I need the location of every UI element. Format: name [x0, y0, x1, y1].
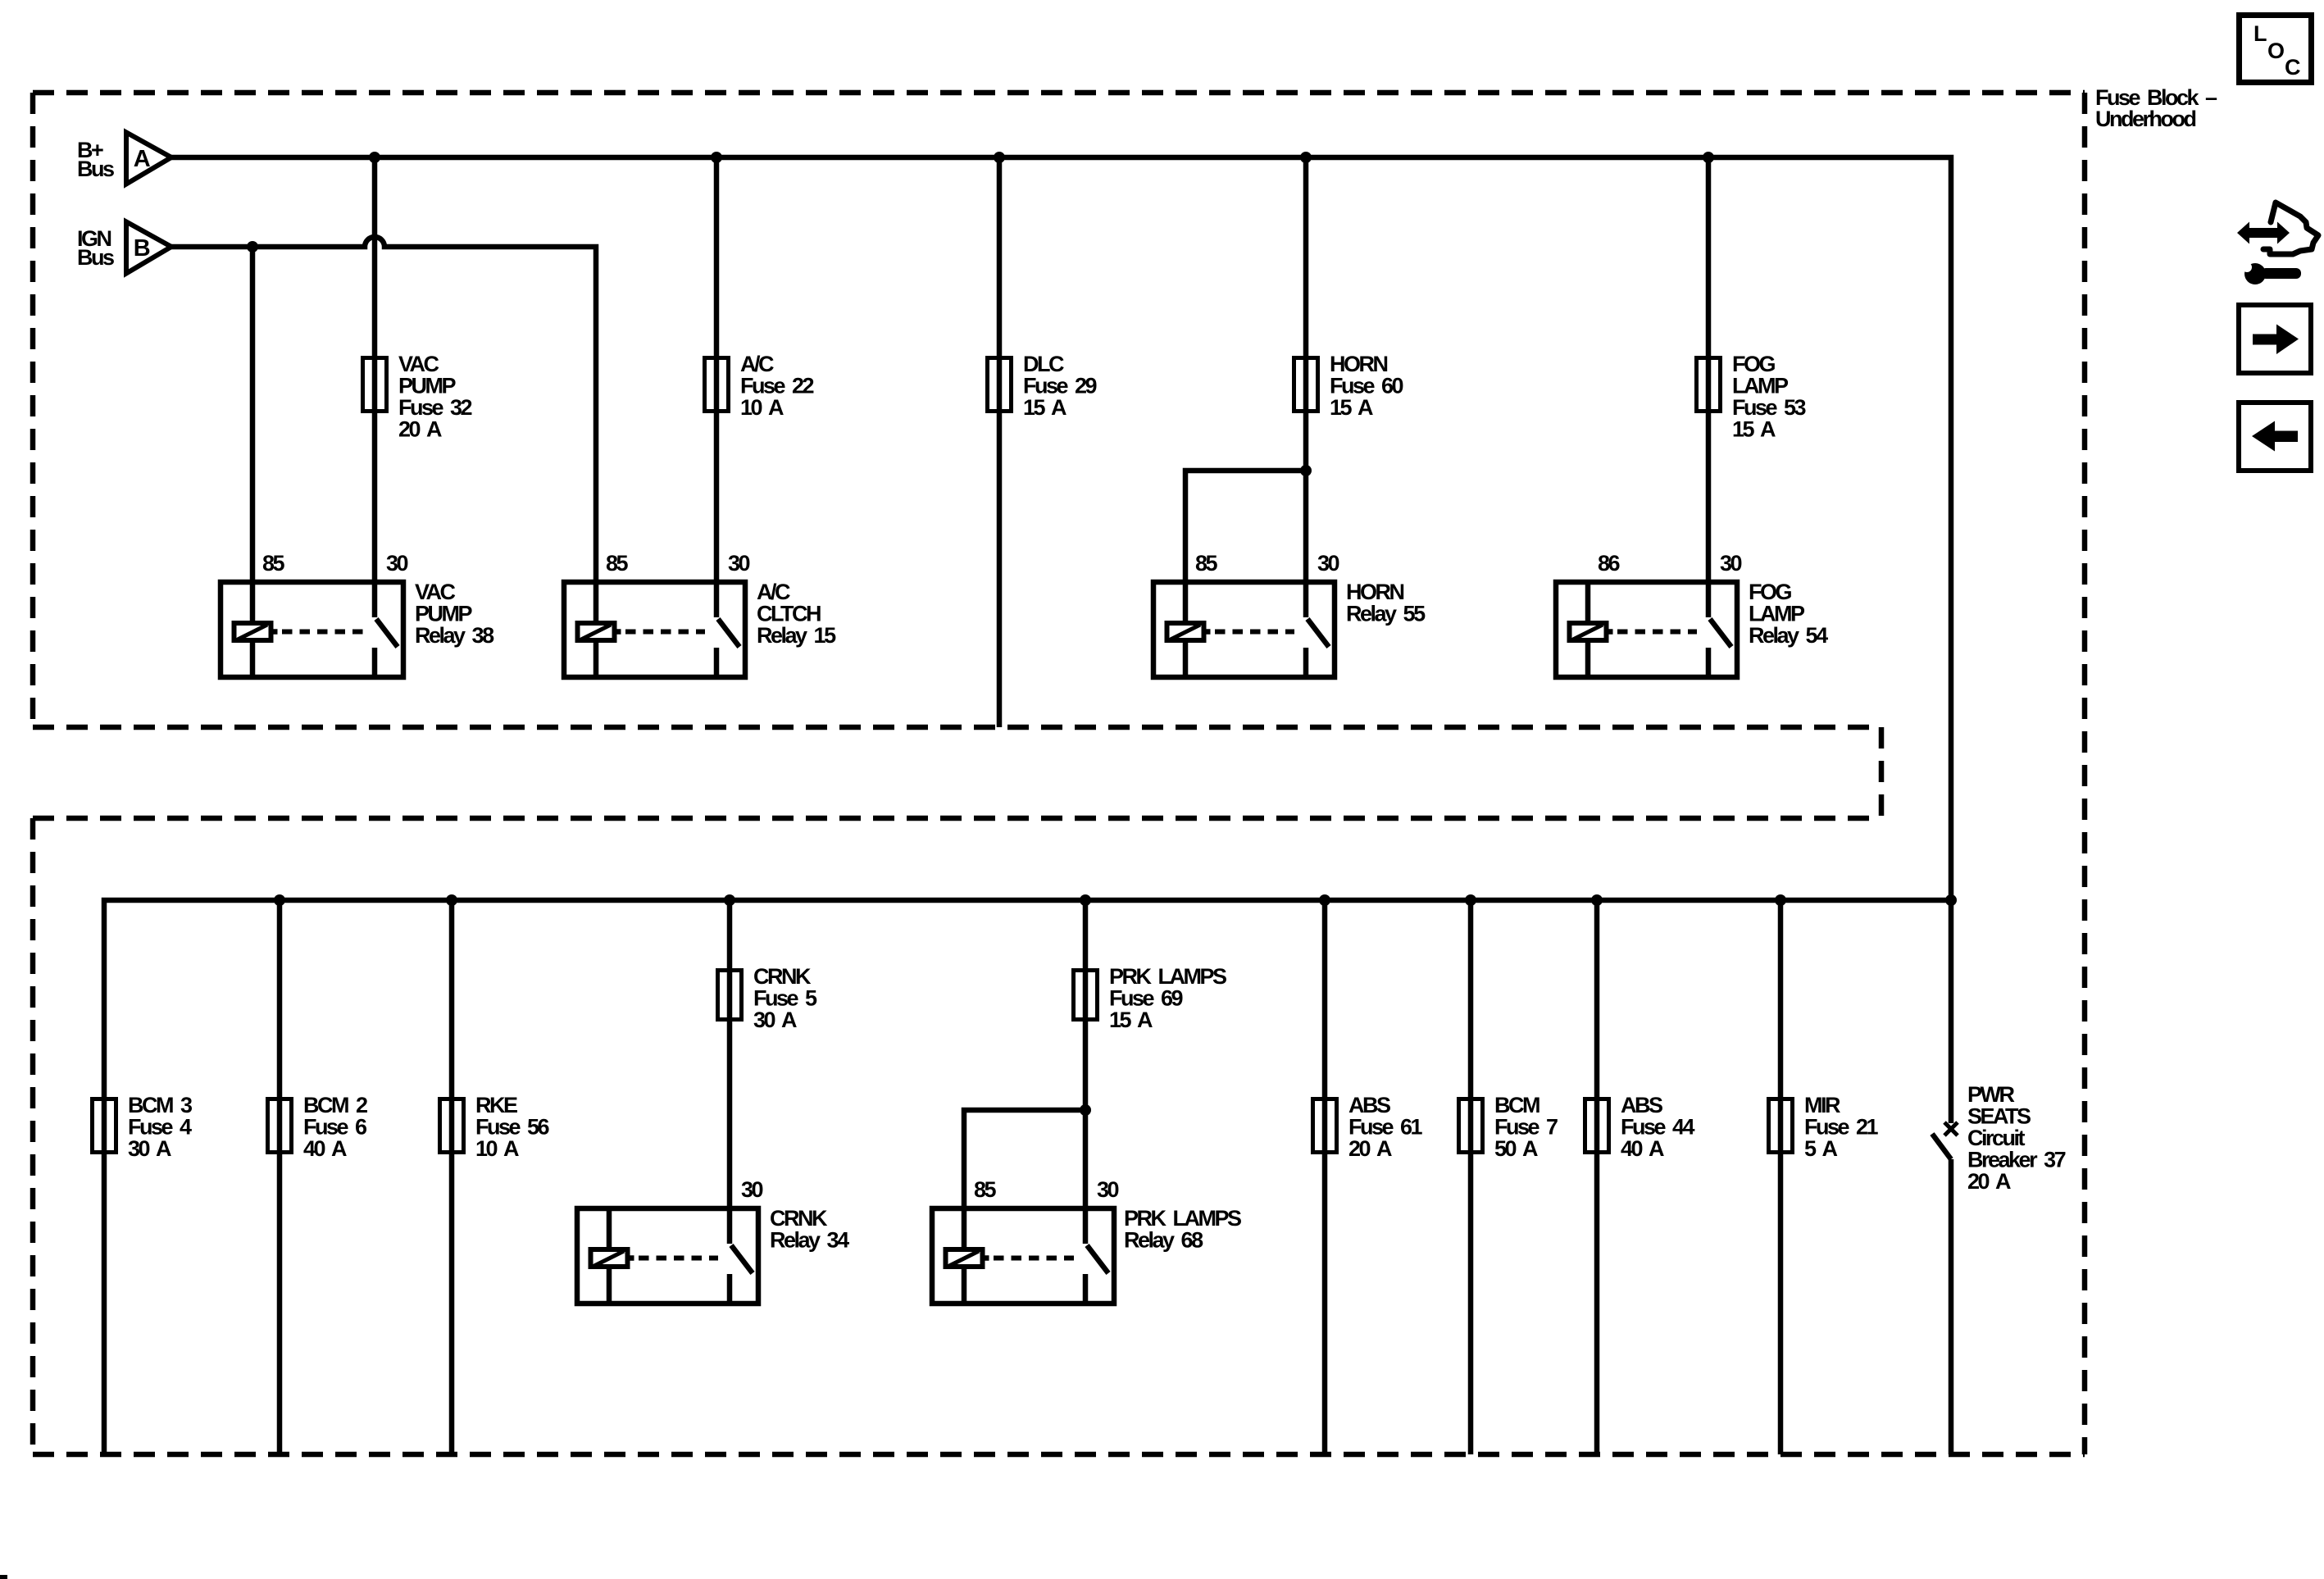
junction node bus/MIR [1775, 894, 1786, 906]
svg-text:C: C [2285, 55, 2300, 80]
wire: bus through BCM 2 fuse [277, 900, 283, 1454]
svg-text:Fuse 60: Fuse 60 [1330, 374, 1403, 398]
relay K38 VAC PUMP Relay [221, 582, 403, 677]
svg-text:Fuse 53: Fuse 53 [1732, 395, 1807, 420]
junction node bus/PWR SEATS breaker [1945, 894, 1957, 906]
label PRK LAMPS Fuse 69 15 A [1109, 964, 1226, 1032]
svg-text:A: A [134, 146, 151, 172]
fuse F44 ABS 40A [1585, 1099, 1609, 1153]
svg-text:FOG: FOG [1732, 352, 1775, 376]
relay K15 A/C CLTCH Relay [564, 582, 745, 677]
pin label 86 (relay 54) [1598, 551, 1621, 576]
relay K55 HORN Relay [1153, 582, 1335, 677]
svg-text:30 A: 30 A [753, 1008, 797, 1032]
connector A (B+ Bus feed) [126, 133, 171, 184]
svg-text:20 A: 20 A [1348, 1136, 1392, 1161]
fuse F5 CRNK 30A [718, 971, 742, 1020]
fuse F60 HORN 15A [1294, 358, 1318, 412]
wire: bus through PRK LAMPS fuse to relay 68 pin 30 [1083, 900, 1089, 1208]
svg-text:10 A: 10 A [475, 1136, 519, 1161]
icon: vehicle with double arrow and wrench [2237, 202, 2318, 284]
label PWR SEATS Circuit Breaker 37 20 A [1967, 1082, 2066, 1194]
wire: B+ through DLC fuse to block boundary [997, 157, 1003, 727]
svg-text:15 A: 15 A [1023, 395, 1066, 420]
svg-text:PRK LAMPS: PRK LAMPS [1109, 964, 1226, 989]
svg-text:PUMP: PUMP [415, 602, 472, 626]
fuse F56 RKE 10A [440, 1099, 464, 1153]
svg-text:CRNK: CRNK [753, 964, 812, 989]
svg-text:10 A: 10 A [740, 395, 784, 420]
junction node bus/BCM2 [274, 894, 285, 906]
wire: B+ through FOG LAMP fuse to relay 54 pin 30 [1706, 157, 1712, 582]
label FOG LAMP Fuse 53 15 A [1732, 352, 1807, 442]
circuit breaker 37 PWR SEATS (switch symbol with x) [1932, 900, 1958, 1454]
label VAC PUMP Fuse 32 20 A [398, 352, 472, 442]
junction node B+/HORN fuse [1300, 152, 1312, 163]
label CRNK Fuse 5 30 A [753, 964, 817, 1032]
svg-text:A/C: A/C [757, 580, 790, 604]
label B+ Bus [77, 138, 114, 181]
svg-text:Circuit: Circuit [1967, 1126, 2026, 1150]
label PRK LAMPS Relay 68 [1124, 1206, 1241, 1253]
svg-text:85: 85 [974, 1177, 997, 1202]
svg-text:40 A: 40 A [303, 1136, 347, 1161]
pin label 85 (relay 38) [262, 551, 285, 576]
fuse F32 VAC PUMP 20A [363, 358, 387, 412]
svg-text:Fuse 56: Fuse 56 [475, 1115, 550, 1140]
svg-text:FOG: FOG [1749, 580, 1791, 604]
svg-text:Relay 68: Relay 68 [1124, 1228, 1203, 1253]
svg-text:15 A: 15 A [1109, 1008, 1153, 1032]
wire: bus through ABS fuse 61 [1322, 900, 1328, 1454]
label BCM 2 Fuse 6 40 A [303, 1093, 367, 1161]
svg-text:HORN: HORN [1346, 580, 1403, 604]
page corner mark [0, 1575, 7, 1579]
label CRNK Relay 34 [770, 1206, 849, 1253]
svg-text:15 A: 15 A [1732, 417, 1776, 442]
svg-text:Fuse 29: Fuse 29 [1023, 374, 1098, 398]
svg-text:L: L [2254, 21, 2267, 46]
svg-text:30: 30 [741, 1177, 763, 1202]
svg-text:BCM 3: BCM 3 [128, 1093, 193, 1117]
svg-text:LAMP: LAMP [1732, 374, 1789, 398]
label MIR Fuse 21 5 A [1804, 1093, 1879, 1161]
pin label 85 (relay 15) [606, 551, 629, 576]
svg-text:BCM 2: BCM 2 [303, 1093, 367, 1117]
junction node IGN/VAC relay coil [247, 241, 258, 253]
svg-text:30: 30 [728, 551, 750, 576]
pin label 30 (relay 38) [386, 551, 408, 576]
svg-text:Fuse 7: Fuse 7 [1494, 1115, 1558, 1140]
LOC reference box [2240, 16, 2312, 83]
svg-text:30: 30 [1720, 551, 1742, 576]
label VAC PUMP Relay 38 [415, 580, 494, 648]
junction node B+/VAC PUMP fuse [369, 152, 380, 163]
svg-text:BCM: BCM [1494, 1093, 1539, 1117]
svg-text:CLTCH: CLTCH [757, 602, 821, 626]
svg-text:PUMP: PUMP [398, 374, 456, 398]
icon: right arrow box [2239, 305, 2311, 373]
svg-text:Fuse 22: Fuse 22 [740, 374, 814, 398]
svg-text:B: B [134, 235, 150, 262]
svg-text:30: 30 [386, 551, 408, 576]
svg-text:A/C: A/C [740, 352, 774, 376]
label FOG LAMP Relay 54 [1749, 580, 1828, 648]
pin label 85 (relay 55) [1195, 551, 1218, 576]
wire: bus through ABS fuse 44 [1594, 900, 1600, 1454]
wire: HORN branch to relay 55 pin 85 [1185, 471, 1306, 582]
label BCM Fuse 7 50 A [1494, 1093, 1558, 1161]
wire: bus through BCM fuse 7 [1468, 900, 1474, 1454]
junction node HORN fuse / relay coil branch [1300, 465, 1312, 476]
svg-text:30: 30 [1317, 551, 1339, 576]
svg-text:MIR: MIR [1804, 1093, 1840, 1117]
svg-text:VAC: VAC [415, 580, 456, 604]
svg-text:Bus: Bus [77, 157, 114, 181]
wire: IGN to VAC PUMP relay coil pin 85 [250, 247, 256, 582]
svg-text:Breaker 37: Breaker 37 [1967, 1148, 2066, 1172]
svg-text:ABS: ABS [1348, 1093, 1390, 1117]
svg-text:30: 30 [1097, 1177, 1119, 1202]
fuse F22 A/C 10A [705, 358, 729, 412]
label HORN Relay 55 [1346, 580, 1426, 626]
svg-text:Relay 54: Relay 54 [1749, 623, 1828, 648]
svg-text:Relay 34: Relay 34 [770, 1228, 849, 1253]
label A/C Fuse 22 10 A [740, 352, 814, 420]
relay K54 FOG LAMP Relay [1556, 582, 1737, 677]
wire: B+ bus from connector A, right side drop and lower bus bar [104, 157, 1951, 1454]
svg-text:86: 86 [1598, 551, 1621, 576]
label DLC Fuse 29 15 A [1023, 352, 1098, 420]
svg-text:50 A: 50 A [1494, 1136, 1538, 1161]
svg-text:40 A: 40 A [1621, 1136, 1664, 1161]
wire: IGN bus from connector B with hop over VAC wire, down to A/C relay pin 85 [171, 237, 596, 582]
fuse F53 FOG LAMP 15A [1697, 358, 1721, 412]
svg-text:Fuse 61: Fuse 61 [1348, 1115, 1423, 1140]
svg-text:O: O [2267, 39, 2284, 63]
relay K34 CRNK Relay [577, 1208, 758, 1304]
svg-text:20 A: 20 A [1967, 1169, 2011, 1194]
svg-text:CRNK: CRNK [770, 1206, 828, 1231]
pin label 30 (relay 55) [1317, 551, 1339, 576]
svg-text:HORN: HORN [1330, 352, 1387, 376]
junction node bus/ABS61 [1319, 894, 1330, 906]
pin label 85 (relay 68) [974, 1177, 997, 1202]
label ABS Fuse 61 20 A [1348, 1093, 1423, 1161]
relay K68 PRK LAMPS Relay [932, 1208, 1114, 1304]
svg-text:5 A: 5 A [1804, 1136, 1838, 1161]
fuse F4 BCM 3 30A [93, 1099, 116, 1153]
connector B (IGN Bus feed) [126, 222, 171, 274]
junction node bus/BCM7 [1465, 894, 1476, 906]
label: Fuse Block - Underhood [2095, 85, 2217, 131]
fuse F61 ABS 20A [1313, 1099, 1337, 1153]
wire: B+ through A/C fuse to relay 15 pin 30 [714, 157, 720, 582]
pin label 30 (relay 54) [1720, 551, 1742, 576]
fuse F6 BCM 2 40A [268, 1099, 292, 1153]
junction node bus/PRK LAMPS [1080, 894, 1091, 906]
wire: bus through CRNK fuse to relay 34 pin 30 [727, 900, 733, 1208]
svg-text:LAMP: LAMP [1749, 602, 1805, 626]
svg-text:Underhood: Underhood [2095, 107, 2195, 131]
svg-text:PRK LAMPS: PRK LAMPS [1124, 1206, 1241, 1231]
wire: B+ through HORN fuse to relay 55 pin 30 [1303, 157, 1309, 582]
junction node B+/DLC fuse [994, 152, 1005, 163]
junction node bus/ABS44 [1591, 894, 1603, 906]
junction node PRK LAMPS fuse / relay coil branch [1080, 1104, 1091, 1116]
svg-text:Fuse 21: Fuse 21 [1804, 1115, 1879, 1140]
svg-text:DLC: DLC [1023, 352, 1064, 376]
svg-text:Relay 15: Relay 15 [757, 623, 836, 648]
label IGN Bus [77, 226, 114, 270]
label HORN Fuse 60 15 A [1330, 352, 1403, 420]
fuse F7 BCM 50A [1459, 1099, 1483, 1153]
svg-text:Fuse 5: Fuse 5 [753, 986, 817, 1011]
label BCM 3 Fuse 4 30 A [128, 1093, 193, 1161]
pin label 30 (relay 15) [728, 551, 750, 576]
svg-text:Fuse 4: Fuse 4 [128, 1115, 192, 1140]
svg-text:PWR: PWR [1967, 1082, 2014, 1107]
svg-text:85: 85 [1195, 551, 1218, 576]
wire: B+ through VAC PUMP fuse to relay 38 pin 30 [372, 157, 378, 582]
icon: left arrow box [2239, 403, 2311, 471]
fuse F21 MIR 5A [1769, 1099, 1793, 1153]
svg-text:30 A: 30 A [128, 1136, 171, 1161]
fuse block dashed outline (Fuse Block - Underhood boundary) [33, 90, 2085, 96]
junction node B+/FOG fuse [1703, 152, 1714, 163]
pin label 30 (relay 68) [1097, 1177, 1119, 1202]
svg-text:SEATS: SEATS [1967, 1104, 2031, 1129]
fuse F69 PRK LAMPS 15A [1074, 971, 1098, 1020]
wire: PRK LAMPS branch to relay 68 pin 85 [964, 1110, 1085, 1208]
svg-text:Fuse 69: Fuse 69 [1109, 986, 1184, 1011]
svg-text:RKE: RKE [475, 1093, 517, 1117]
label A/C CLTCH Relay 15 [757, 580, 836, 648]
svg-text:ABS: ABS [1621, 1093, 1662, 1117]
svg-text:Fuse 44: Fuse 44 [1621, 1115, 1695, 1140]
svg-text:Relay 55: Relay 55 [1346, 602, 1426, 626]
svg-text:15 A: 15 A [1330, 395, 1373, 420]
wire: bus through RKE fuse [449, 900, 455, 1454]
wire: bus through MIR fuse 21 [1778, 900, 1784, 1454]
svg-text:Bus: Bus [77, 245, 114, 270]
junction node bus/RKE [446, 894, 457, 906]
svg-text:Relay 38: Relay 38 [415, 623, 494, 648]
svg-text:85: 85 [606, 551, 629, 576]
fuse F29 DLC 15A [988, 358, 1012, 412]
svg-text:Fuse 32: Fuse 32 [398, 395, 472, 420]
svg-text:VAC: VAC [398, 352, 439, 376]
pin label 30 (relay 34) [741, 1177, 763, 1202]
svg-text:20 A: 20 A [398, 417, 442, 442]
svg-text:85: 85 [262, 551, 285, 576]
junction node B+/AC fuse [711, 152, 722, 163]
svg-text:Fuse 6: Fuse 6 [303, 1115, 367, 1140]
label RKE Fuse 56 10 A [475, 1093, 550, 1161]
label ABS Fuse 44 40 A [1621, 1093, 1695, 1161]
junction node bus/CRNK [724, 894, 735, 906]
